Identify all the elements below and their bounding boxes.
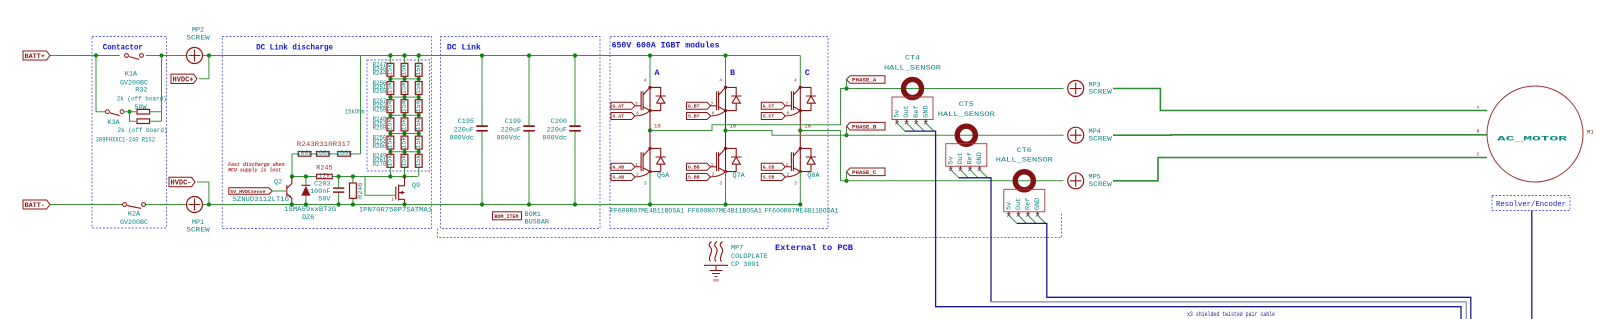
svg-text:CT6: CT6 bbox=[1017, 147, 1032, 155]
wire to HVDC+ label bbox=[199, 56, 209, 79]
svg-text:5v: 5v bbox=[1005, 202, 1013, 210]
svg-text:FF600R07ME4B11BOSA1: FF600R07ME4B11BOSA1 bbox=[764, 208, 838, 216]
svg-text:10: 10 bbox=[730, 123, 737, 130]
wire Q9 gate bbox=[365, 177, 395, 196]
resistor bank R253 bbox=[387, 118, 394, 131]
junction node row bbox=[402, 174, 406, 178]
junction bank bbox=[388, 95, 392, 99]
resistor bank R247 bbox=[387, 82, 394, 95]
svg-text:MCU supply is lost: MCU supply is lost bbox=[227, 168, 281, 174]
svg-text:C199: C199 bbox=[505, 118, 521, 126]
cable bundle CT5 bbox=[959, 178, 991, 302]
junction top bus / K3A return bbox=[159, 53, 163, 57]
resistor bank R258 bbox=[415, 136, 422, 149]
svg-text:B: B bbox=[1477, 129, 1480, 135]
transistor Q2 bbox=[287, 177, 292, 205]
wire CT6 5v diagonal bbox=[1009, 215, 1017, 223]
svg-text:G_BB: G_BB bbox=[688, 165, 700, 171]
External-to-PCB dashed boundary bbox=[438, 213, 1062, 238]
junction leg A on bottom bus bbox=[648, 202, 652, 206]
wire HVDC+ top bus bbox=[50, 55, 800, 57]
svg-text:COLDPLATE: COLDPLATE bbox=[731, 253, 768, 261]
label G_BB bbox=[687, 163, 711, 170]
junction bank bbox=[403, 113, 407, 117]
junction bank bbox=[417, 95, 421, 99]
wire to HVDC- label bbox=[197, 182, 209, 205]
svg-text:1: 1 bbox=[711, 163, 714, 168]
mount MP4 SCREW bbox=[1068, 127, 1084, 143]
svg-text:50V: 50V bbox=[318, 196, 331, 204]
svg-text:220uF: 220uF bbox=[547, 126, 567, 134]
label BOM_ITEM bbox=[493, 212, 522, 220]
wire phase C bbox=[800, 131, 1063, 181]
junction bank bbox=[388, 113, 392, 117]
junction C195 top bbox=[480, 53, 484, 57]
svg-text:G_CB: G_CB bbox=[763, 165, 775, 171]
wire C195 bbox=[481, 56, 483, 205]
label G_AB bbox=[611, 163, 635, 170]
svg-text:R244: R244 bbox=[373, 70, 387, 78]
svg-text:10: 10 bbox=[804, 123, 811, 130]
resistor bank R257 bbox=[401, 136, 408, 149]
capacitor C195 bbox=[476, 126, 487, 131]
cable bundle CT6 bbox=[1017, 223, 1471, 319]
wire G_CT to gate bbox=[785, 105, 791, 107]
svg-text:BATT-: BATT- bbox=[25, 202, 45, 210]
svg-text:1: 1 bbox=[635, 163, 638, 168]
svg-text:CT5: CT5 bbox=[959, 101, 974, 109]
svg-text:2k (off board): 2k (off board) bbox=[117, 95, 167, 103]
diode A bottom freewheel bbox=[650, 148, 666, 171]
label G_CT bbox=[761, 102, 785, 109]
junction bank bbox=[417, 132, 421, 136]
junction C200 bottom bbox=[573, 202, 577, 206]
junction bank bbox=[403, 77, 407, 81]
transistor C top IGBT bbox=[791, 91, 793, 110]
junction bank bbox=[403, 132, 407, 136]
wire CT4 GND diagonal bbox=[926, 123, 934, 131]
junction C203 bbox=[337, 202, 341, 206]
svg-text:15k: 15k bbox=[415, 155, 423, 167]
diode C bottom freewheel bbox=[800, 148, 816, 171]
svg-text:3: 3 bbox=[719, 182, 722, 187]
junction leg B phase node bbox=[723, 128, 727, 132]
svg-text:Out: Out bbox=[903, 105, 911, 117]
svg-text:PHASE_C: PHASE_C bbox=[852, 169, 877, 176]
svg-text:C: C bbox=[805, 68, 810, 78]
transistor A top IGBT bbox=[641, 91, 643, 110]
svg-text:G_BT: G_BT bbox=[688, 104, 700, 110]
wire bank rung bbox=[390, 114, 418, 116]
capacitor C203 bbox=[333, 188, 344, 192]
junction C200 top bbox=[573, 53, 577, 57]
diode B bottom freewheel bbox=[726, 148, 742, 171]
svg-text:15k: 15k bbox=[415, 64, 423, 76]
junction bank col on bus bbox=[417, 53, 421, 57]
svg-text:GV200BC: GV200BC bbox=[120, 219, 148, 227]
svg-text:800Vdc: 800Vdc bbox=[450, 135, 474, 143]
svg-text:15k: 15k bbox=[401, 64, 409, 76]
svg-text:DC Link discharge: DC Link discharge bbox=[256, 43, 333, 53]
wire CT5 5v diagonal bbox=[951, 170, 959, 178]
svg-text:DZ6: DZ6 bbox=[302, 214, 314, 222]
resistor bank R250 bbox=[387, 100, 394, 113]
wire leg A collector bbox=[649, 56, 651, 88]
label S_CT bbox=[761, 113, 785, 120]
cable bundle CT4 bbox=[905, 131, 1461, 319]
wire phase A to motor bbox=[1113, 89, 1487, 111]
svg-text:309FHXXC1-240 R1S2: 309FHXXC1-240 R1S2 bbox=[96, 136, 155, 144]
zener diode DZ6 bbox=[301, 184, 310, 186]
junction C195 bottom bbox=[480, 202, 484, 206]
svg-text:C200: C200 bbox=[551, 118, 567, 126]
svg-text:S_AT: S_AT bbox=[613, 114, 625, 120]
junction bank bbox=[403, 150, 407, 154]
resistor bank R254 bbox=[401, 118, 408, 131]
DC Link discharge section dashed box bbox=[222, 37, 431, 229]
svg-text:15k: 15k bbox=[401, 100, 409, 112]
svg-text:2k (off board): 2k (off board) bbox=[118, 127, 168, 135]
current sensor CT5 ring bbox=[957, 126, 975, 144]
svg-text:K1A: K1A bbox=[125, 70, 138, 78]
wire G_CB to gate bbox=[785, 166, 791, 168]
junction bank col on bus bbox=[388, 53, 392, 57]
wire CT5 Ref diagonal bbox=[970, 170, 978, 178]
junction leg C phase node bbox=[798, 128, 802, 132]
transistor Q6A bottom IGBT bbox=[641, 152, 643, 171]
resistor R245 bbox=[317, 174, 333, 178]
resistor R317 bbox=[338, 152, 351, 157]
svg-text:Ref: Ref bbox=[913, 105, 921, 117]
svg-text:15k: 15k bbox=[401, 155, 409, 167]
wire bank columns bbox=[390, 56, 418, 177]
svg-text:S_CT: S_CT bbox=[763, 114, 775, 120]
resistor bank R261 bbox=[415, 154, 422, 167]
svg-text:R246: R246 bbox=[357, 183, 365, 199]
svg-text:AC_MOTOR: AC_MOTOR bbox=[1497, 135, 1569, 143]
svg-text:7: 7 bbox=[711, 102, 714, 107]
current sensor CT4 ring bbox=[903, 79, 921, 97]
wire leg C midpoint bbox=[799, 111, 801, 149]
resistor bank R244 bbox=[387, 63, 394, 76]
transistor B top IGBT bbox=[717, 91, 719, 110]
svg-text:G_AB: G_AB bbox=[613, 165, 625, 171]
label G_BT bbox=[687, 102, 711, 109]
svg-text:M1: M1 bbox=[1587, 129, 1594, 136]
svg-text:R255: R255 bbox=[373, 88, 387, 96]
wire Q2 base bbox=[273, 190, 286, 192]
svg-text:15kOhm: 15kOhm bbox=[345, 109, 365, 117]
svg-text:S_CB: S_CB bbox=[763, 175, 775, 181]
junction bank bbox=[417, 150, 421, 154]
svg-text:S_BT: S_BT bbox=[688, 114, 700, 120]
svg-text:15k: 15k bbox=[387, 82, 395, 94]
wire R246 bbox=[352, 177, 354, 205]
svg-text:FF600R07ME4B11BOSA1: FF600R07ME4B11BOSA1 bbox=[688, 208, 762, 216]
resistor bank R259 bbox=[387, 154, 394, 167]
wire G_BB to gate bbox=[711, 166, 717, 168]
label PHASE_A bbox=[847, 76, 886, 84]
svg-text:3: 3 bbox=[644, 182, 647, 187]
svg-text:PHASE_B: PHASE_B bbox=[852, 123, 877, 130]
svg-text:PHASE_A: PHASE_A bbox=[852, 77, 877, 84]
wire PHASE_A label stub bbox=[846, 80, 848, 89]
junction K3A / R32 R152 bbox=[127, 110, 131, 114]
svg-text:GND: GND bbox=[713, 280, 719, 284]
label G_AT bbox=[611, 102, 635, 109]
svg-text:Out: Out bbox=[957, 152, 965, 164]
svg-text:15k: 15k bbox=[401, 118, 409, 130]
wire CT4 Out diagonal bbox=[907, 123, 915, 131]
svg-text:800Vdc: 800Vdc bbox=[543, 135, 567, 143]
svg-text:Out: Out bbox=[1015, 198, 1023, 210]
mount MP1 SCREW bbox=[187, 197, 203, 213]
wire S_CT to emitter bbox=[785, 111, 800, 116]
resistor bank dashed sub-box bbox=[367, 60, 430, 171]
svg-text:5v: 5v bbox=[894, 110, 902, 118]
wire leg B emitter to bus bbox=[725, 172, 727, 205]
svg-text:G_CT: G_CT bbox=[763, 104, 775, 110]
svg-text:SCREW: SCREW bbox=[186, 227, 210, 235]
svg-text:100k: 100k bbox=[315, 150, 331, 158]
junction HVDC+ tap bbox=[207, 53, 211, 57]
resistor bank R256 bbox=[387, 136, 394, 149]
svg-text:4: 4 bbox=[719, 79, 722, 84]
wire K3A branch left bbox=[96, 56, 106, 112]
svg-text:DC Link: DC Link bbox=[447, 43, 481, 53]
svg-text:R259: R259 bbox=[373, 125, 387, 133]
wire leg C collector bbox=[799, 56, 801, 88]
resolver/encoder box bbox=[1492, 196, 1570, 211]
resistor R246 bbox=[350, 183, 357, 198]
wire phase A bbox=[650, 89, 1064, 131]
resistor bank R248 bbox=[401, 82, 408, 95]
label S_BT bbox=[687, 113, 711, 120]
wire phase C to motor bbox=[1113, 158, 1487, 181]
junction leg C on bottom bus bbox=[798, 202, 802, 206]
label S_CB bbox=[761, 174, 785, 181]
wire phase B to motor bbox=[1113, 134, 1487, 136]
svg-text:x3 shielded twisted pair cable: x3 shielded twisted pair cable bbox=[1187, 311, 1275, 319]
junction leg B on bottom bus bbox=[723, 202, 727, 206]
junction bank bbox=[417, 77, 421, 81]
svg-text:5V_HVDCsense: 5V_HVDCsense bbox=[230, 189, 265, 195]
junction leg A on bus bbox=[648, 53, 652, 57]
port BATT+ bbox=[23, 51, 50, 60]
svg-text:BUSBAR: BUSBAR bbox=[525, 218, 549, 226]
resistor bank R255 bbox=[415, 118, 422, 131]
junction leg A phase node bbox=[648, 128, 652, 132]
svg-text:4: 4 bbox=[644, 79, 647, 84]
wire S_CB to emitter bbox=[785, 172, 800, 177]
junction Q2 emitter bbox=[290, 202, 294, 206]
label S_BB bbox=[687, 174, 711, 181]
wire CT6 Ref diagonal bbox=[1028, 215, 1036, 223]
svg-text:HALL_SENSOR: HALL_SENSOR bbox=[938, 111, 995, 119]
svg-text:15k: 15k bbox=[415, 136, 423, 148]
junction C199 bottom bbox=[527, 202, 531, 206]
wire S_BB to emitter bbox=[711, 172, 726, 177]
wire bank rung bbox=[390, 96, 418, 98]
svg-text:SCREW: SCREW bbox=[186, 35, 210, 43]
svg-text:R32: R32 bbox=[135, 87, 147, 95]
wire G_BT to gate bbox=[711, 105, 717, 107]
svg-text:IPN70R750P7SATMA1: IPN70R750P7SATMA1 bbox=[359, 207, 432, 215]
resistor R152 bbox=[137, 119, 150, 124]
junction bank bbox=[388, 150, 392, 154]
wire leg A midpoint bbox=[649, 111, 651, 149]
svg-text:R243R310R317: R243R310R317 bbox=[297, 141, 351, 149]
svg-text:Q7A: Q7A bbox=[733, 172, 746, 180]
svg-text:C: C bbox=[1477, 151, 1480, 157]
contactor contact K1A bbox=[125, 54, 129, 58]
label 5V_HVDCsense bbox=[229, 188, 272, 195]
svg-text:4: 4 bbox=[794, 79, 797, 84]
junction bank bbox=[388, 77, 392, 81]
svg-text:K3A: K3A bbox=[107, 119, 120, 127]
wire CT5 Out diagonal bbox=[960, 170, 968, 178]
svg-text:HVDC+: HVDC+ bbox=[173, 76, 194, 84]
svg-text:C195: C195 bbox=[458, 118, 474, 126]
wire C200 bbox=[574, 56, 576, 205]
svg-text:3: 3 bbox=[794, 182, 797, 187]
resistor bank R246 bbox=[415, 63, 422, 76]
svg-text:R258: R258 bbox=[373, 106, 387, 114]
svg-text:Ref: Ref bbox=[1025, 198, 1033, 210]
junction node row bbox=[388, 174, 392, 178]
junction top bus / K3A branch bbox=[94, 53, 98, 57]
label G_CB bbox=[761, 163, 785, 170]
resistor bank R260 bbox=[401, 154, 408, 167]
wire phase B bbox=[726, 131, 1064, 136]
wire S_AT to emitter bbox=[635, 111, 650, 116]
svg-text:1SMA59xxBT3G: 1SMA59xxBT3G bbox=[284, 206, 336, 214]
mount MP2 SCREW bbox=[187, 48, 203, 64]
svg-text:BATT+: BATT+ bbox=[25, 53, 45, 61]
svg-text:1: 1 bbox=[391, 197, 394, 202]
svg-text:K2A: K2A bbox=[128, 210, 141, 218]
mosfet Q9 bbox=[396, 177, 405, 205]
wire CT4 Ref diagonal bbox=[916, 123, 924, 131]
label HVDC- bbox=[169, 177, 195, 186]
mount MP3 SCREW bbox=[1068, 81, 1084, 97]
wire PHASE_C label stub bbox=[846, 172, 848, 181]
IGBT modules section dashed box bbox=[610, 37, 828, 229]
svg-text:7: 7 bbox=[785, 102, 788, 107]
wire leg C emitter to bus bbox=[799, 172, 801, 205]
Contactor section dashed box bbox=[92, 37, 167, 229]
wire leg B collector bbox=[725, 56, 727, 88]
svg-text:15k: 15k bbox=[387, 100, 395, 112]
port BATT- bbox=[23, 200, 50, 209]
svg-text:Ref: Ref bbox=[967, 152, 975, 164]
svg-text:BOM_ITEM: BOM_ITEM bbox=[495, 214, 519, 220]
svg-text:MP1: MP1 bbox=[192, 219, 204, 227]
svg-text:800Vdc: 800Vdc bbox=[497, 135, 521, 143]
resistor bank R249 bbox=[415, 82, 422, 95]
wire HVDC- bottom bus bbox=[50, 204, 800, 206]
wire G_AT to gate bbox=[635, 105, 641, 107]
wire R243 row to HVDC+ bbox=[292, 56, 361, 154]
cable resolver bbox=[1531, 211, 1533, 319]
label S_AB bbox=[611, 174, 635, 181]
junction bank bbox=[388, 132, 392, 136]
resistor R32 bbox=[137, 109, 150, 114]
svg-text:R245: R245 bbox=[316, 165, 332, 173]
svg-text:Q9: Q9 bbox=[412, 182, 420, 190]
svg-text:A: A bbox=[654, 68, 660, 78]
svg-text:SCREW: SCREW bbox=[1089, 135, 1113, 143]
svg-text:7: 7 bbox=[635, 102, 638, 107]
junction bank col on bus bbox=[402, 53, 406, 57]
wire S_BT to emitter bbox=[711, 111, 726, 116]
svg-text:Resolver/Encoder: Resolver/Encoder bbox=[1496, 201, 1566, 209]
svg-text:HALL_SENSOR: HALL_SENSOR bbox=[996, 157, 1053, 165]
wire CT6 Out diagonal bbox=[1018, 215, 1026, 223]
wire PHASE_B label stub bbox=[846, 126, 848, 135]
junction bank bbox=[417, 113, 421, 117]
svg-text:G_AT: G_AT bbox=[613, 104, 625, 110]
svg-text:15k: 15k bbox=[401, 82, 409, 94]
wire bank rung bbox=[390, 133, 418, 135]
transistor Q8A bottom IGBT bbox=[791, 152, 793, 171]
capacitor C200 bbox=[569, 126, 580, 131]
svg-text:15k: 15k bbox=[415, 82, 423, 94]
wire CT4 5v diagonal bbox=[897, 123, 905, 131]
svg-text:CP 3001: CP 3001 bbox=[731, 261, 760, 269]
svg-text:220uF: 220uF bbox=[501, 126, 521, 134]
junction PHASE_C bbox=[844, 179, 848, 183]
junction node row bbox=[290, 174, 294, 178]
junction bank bbox=[403, 95, 407, 99]
resistor R310 bbox=[317, 152, 330, 157]
svg-text:100k: 100k bbox=[296, 150, 312, 158]
CT5 pin box bbox=[946, 144, 987, 167]
resistor bank R245 bbox=[401, 63, 408, 76]
svg-text:1: 1 bbox=[785, 163, 788, 168]
junction R246 bottom bbox=[351, 202, 355, 206]
mount MP5 SCREW bbox=[1068, 173, 1084, 189]
svg-text:650V 600A IGBT modules: 650V 600A IGBT modules bbox=[612, 41, 720, 51]
DC Link section dashed box bbox=[441, 37, 601, 229]
svg-text:Q6A: Q6A bbox=[657, 172, 670, 180]
junction C199 top bbox=[527, 53, 531, 57]
svg-text:SCREW: SCREW bbox=[1089, 89, 1113, 97]
wire CT6 GND diagonal bbox=[1038, 215, 1046, 223]
CT4 pin box bbox=[892, 97, 933, 120]
svg-text:100k: 100k bbox=[336, 150, 352, 158]
contactor contact K3A bbox=[106, 110, 110, 114]
wire G_AB to gate bbox=[635, 166, 641, 168]
resistor bank R251 bbox=[401, 100, 408, 113]
svg-text:15k: 15k bbox=[387, 155, 395, 167]
diode C top freewheel bbox=[800, 87, 816, 110]
wire gate/drain node row bbox=[292, 176, 418, 178]
CT6 pin box bbox=[1004, 189, 1045, 212]
wire parallel resistor path bbox=[130, 112, 162, 122]
junction PHASE_A bbox=[844, 86, 848, 90]
capacitor C199 bbox=[523, 126, 534, 131]
junction Q9 source bbox=[402, 202, 406, 206]
label PHASE_C bbox=[847, 168, 886, 176]
svg-text:FF600R07ME4B11BOSA1: FF600R07ME4B11BOSA1 bbox=[610, 208, 684, 216]
diode A top freewheel bbox=[650, 87, 666, 110]
wire bank rung bbox=[390, 78, 418, 80]
ground bbox=[710, 265, 723, 276]
svg-text:Q8A: Q8A bbox=[807, 172, 820, 180]
svg-text:15k: 15k bbox=[387, 64, 395, 76]
wire S_AB to emitter bbox=[635, 172, 650, 177]
